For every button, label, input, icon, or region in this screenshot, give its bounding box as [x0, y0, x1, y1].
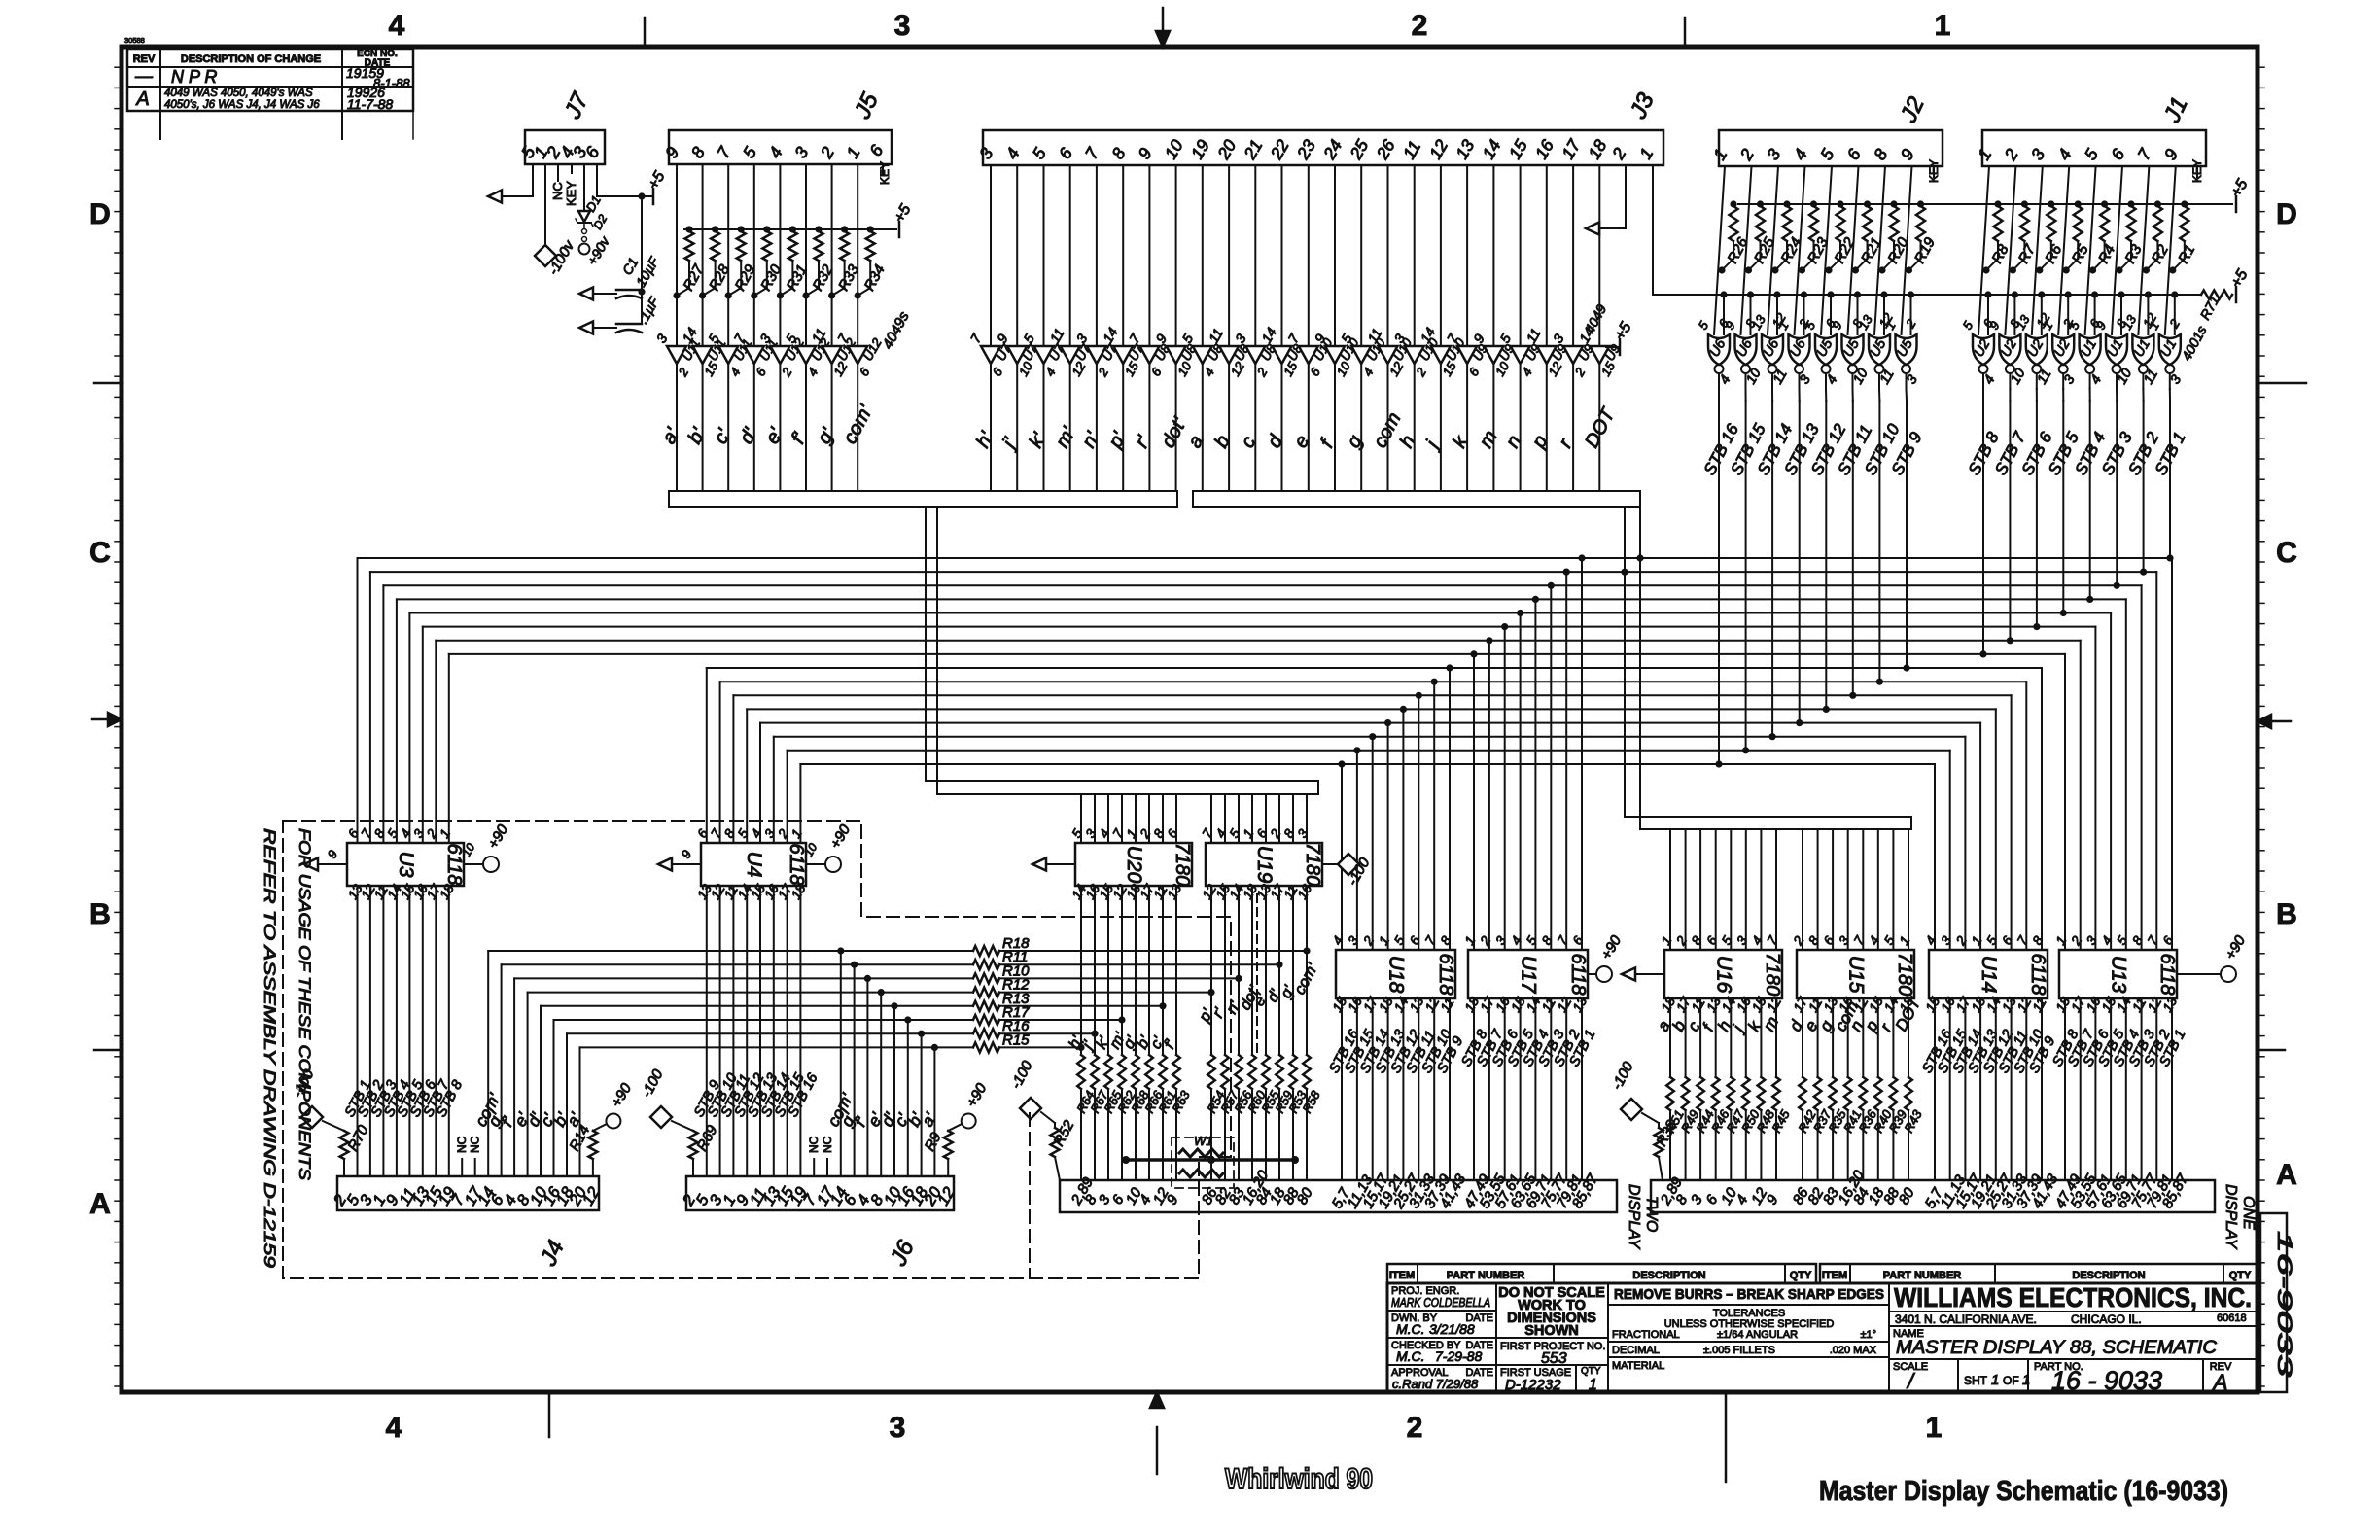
inverter U7: [1113, 346, 1133, 364]
svg-text:m': m': [1052, 423, 1081, 451]
wire segment b': [1148, 886, 1150, 1055]
wire segment bus line R12: [528, 992, 973, 994]
junction to J6 segment pin: [918, 1031, 925, 1037]
wire: [2085, 166, 2096, 334]
junction from strobe gate: [2114, 582, 2120, 589]
svg-text:3: 3: [1295, 826, 1312, 840]
dashed dot-prime line: [1256, 894, 1258, 1055]
inverter U9: [1590, 346, 1609, 364]
wire right bend down: [2041, 668, 2043, 950]
svg-text:4: 4: [1360, 366, 1377, 379]
junction from strobe gate: [1769, 733, 1776, 740]
resistor R54: [1207, 1055, 1215, 1089]
svg-text:2: 2: [2068, 933, 2084, 948]
wire: [1874, 166, 1885, 334]
connector J1: [1982, 130, 2206, 166]
svg-text:+5: +5: [892, 202, 915, 226]
svg-text:+90: +90: [963, 1080, 991, 1110]
svg-text:8: 8: [1107, 144, 1129, 162]
svg-text:R70: R70: [345, 1122, 372, 1154]
svg-text:2: 2: [1608, 144, 1630, 163]
wire segment bus line R16: [567, 1032, 973, 1034]
svg-text:5: 5: [2114, 933, 2130, 947]
wire to J4 segment pin: [540, 1006, 542, 1176]
resistor R13: [973, 1001, 999, 1011]
svg-text:1: 1: [1969, 933, 1985, 947]
svg-text:KEY: KEY: [1927, 159, 1941, 183]
wire segment d: [1802, 998, 1803, 1077]
wire segment k': [1043, 364, 1045, 491]
svg-text:6: 6: [1148, 365, 1165, 378]
wire right bend down: [2141, 585, 2143, 950]
resistor R6: [2047, 200, 2054, 207]
svg-text:12: 12: [1425, 136, 1452, 162]
wire segment f: [1715, 998, 1717, 1077]
svg-text:80: 80: [1896, 1184, 1918, 1207]
svg-text:a': a': [658, 424, 684, 448]
resistor R24: [1783, 200, 1790, 207]
wire segment p': [1210, 886, 1212, 1055]
svg-text:60618: 60618: [2217, 1312, 2247, 1324]
wire right bend down: [1949, 751, 1951, 950]
svg-text:A: A: [89, 1188, 111, 1220]
svg-text:2: 2: [1790, 933, 1806, 948]
inverter U8: [1219, 346, 1239, 364]
wire right bend down: [1964, 737, 1966, 950]
wire: [1848, 166, 1859, 334]
svg-text:+90: +90: [609, 1080, 636, 1110]
svg-text:C: C: [89, 537, 111, 569]
svg-text:NC: NC: [821, 1136, 834, 1153]
NOR gate U2: [1973, 334, 1994, 365]
svg-text:D: D: [2276, 198, 2297, 230]
wire left bend down: [759, 723, 761, 843]
svg-text:6118: 6118: [1567, 953, 1589, 995]
svg-text:+5: +5: [2228, 177, 2252, 200]
wire STB 15: [787, 886, 788, 1176]
resistor R28: [712, 226, 718, 232]
wire: [1210, 794, 1212, 843]
junction to 6118 strobe driver: [1501, 623, 1508, 630]
inverter U10: [1379, 346, 1398, 364]
svg-text:e': e': [761, 424, 787, 448]
svg-text:p': p': [1104, 428, 1131, 452]
wire: [1094, 794, 1096, 843]
svg-text:4: 4: [2053, 145, 2075, 163]
dashed assembly-usage boundary: [283, 821, 1231, 1278]
inverter U9: [1563, 346, 1583, 364]
wire segment n: [1520, 364, 1522, 491]
resistor R35: [1829, 1077, 1837, 1110]
svg-text:g: g: [1343, 432, 1367, 451]
wire: [1148, 794, 1150, 843]
svg-text:4049: 4049: [1582, 301, 1610, 335]
wire segment DOT: [1907, 998, 1909, 1077]
connector J6: [686, 1176, 954, 1210]
svg-text:1: 1: [1974, 146, 1995, 163]
NOR gate U1: [2132, 334, 2153, 365]
wire STB 11: [2011, 998, 2012, 1180]
wire to J4 segment pin: [501, 964, 503, 1176]
svg-text:14: 14: [1479, 136, 1505, 162]
svg-text:FOR USAGE OF THESE COMPONENTS: FOR USAGE OF THESE COMPONENTS: [296, 828, 314, 1181]
wire segment m: [1775, 998, 1777, 1077]
wire STB 4: [396, 886, 398, 1176]
svg-text:9: 9: [679, 848, 695, 861]
wire: [2032, 166, 2043, 334]
svg-text:11-7-88: 11-7-88: [347, 96, 393, 112]
wire STB 14: [773, 886, 775, 1176]
svg-text:20: 20: [1213, 136, 1241, 163]
wire left bend down: [408, 613, 410, 844]
svg-text:D-12232: D-12232: [1505, 1377, 1561, 1393]
svg-text:r': r': [1131, 432, 1155, 452]
svg-text:7: 7: [713, 142, 735, 161]
svg-text:+5: +5: [1612, 320, 1635, 343]
svg-text:2: 2: [1673, 933, 1690, 948]
wire STB 3: [1550, 998, 1552, 1180]
wire segment dot': [1251, 886, 1253, 1055]
resistor R46: [1712, 1077, 1720, 1110]
wire segment h: [1730, 998, 1732, 1077]
svg-text:5: 5: [1960, 318, 1977, 332]
wire STB 7: [1488, 998, 1490, 1180]
wire STB 9: [706, 886, 708, 1176]
svg-text:6: 6: [1466, 365, 1483, 378]
svg-text:11: 11: [1046, 326, 1067, 346]
svg-text:9: 9: [1897, 145, 1918, 163]
svg-text:5: 5: [1391, 933, 1408, 947]
svg-text:±.005 FILLETS: ±.005 FILLETS: [1703, 1345, 1775, 1356]
resistor R4: [2101, 200, 2108, 207]
wire STB 13 horizontal: [760, 722, 1980, 724]
svg-text:3: 3: [790, 143, 812, 161]
junction to 6118 strobe driver: [1486, 637, 1492, 644]
resistor R71: [2201, 291, 2232, 299]
junction to J6 segment pin: [864, 975, 871, 982]
power -100 (U19): [1322, 863, 1338, 865]
svg-text:6118: 6118: [2156, 953, 2178, 995]
wire: [1175, 794, 1177, 843]
wire segment k: [1760, 998, 1762, 1077]
svg-text:dot': dot': [1158, 413, 1192, 451]
diode D1: [583, 173, 585, 210]
svg-text:6118: 6118: [2027, 953, 2048, 995]
svg-text:DISPLAY: DISPLAY: [2222, 1184, 2239, 1250]
resistor R70: [301, 1106, 323, 1128]
svg-text:M.C.: M.C.: [1396, 1348, 1425, 1364]
resistor R9: [947, 1159, 949, 1176]
svg-text:6: 6: [1307, 365, 1323, 378]
wire to J4 segment pin: [579, 1047, 581, 1176]
svg-text:DECIMAL: DECIMAL: [1612, 1345, 1660, 1356]
svg-text:Master Display Schematic (16-9: Master Display Schematic (16-9033): [1819, 1476, 2228, 1507]
svg-text:U14: U14: [1977, 956, 2000, 994]
inverter U7: [981, 346, 1000, 364]
connector J3: [983, 130, 1663, 165]
svg-text:3: 3: [1232, 332, 1249, 346]
svg-text:d': d': [736, 424, 762, 448]
svg-text:1: 1: [1462, 933, 1479, 947]
wire left bend down: [773, 737, 775, 843]
wire STB 9: [1449, 998, 1451, 1180]
svg-text:DESCRIPTION: DESCRIPTION: [1632, 1270, 1705, 1281]
wire left bend down: [396, 599, 398, 843]
wire: [1306, 794, 1308, 843]
wire STB 16: [799, 886, 801, 1176]
wire segment f': [805, 364, 807, 491]
svg-text:3: 3: [1073, 332, 1091, 346]
wire left bend down: [422, 627, 424, 843]
wire right bend down: [2094, 627, 2096, 950]
junction to 6118 strobe driver: [1548, 582, 1555, 589]
ground: [1635, 973, 1664, 975]
resistor R66: [1145, 1055, 1153, 1089]
wire segment d: [1281, 364, 1283, 491]
svg-text:11: 11: [1399, 137, 1424, 162]
svg-text:3: 3: [1550, 332, 1567, 346]
wire STB 2 horizontal: [370, 571, 2156, 573]
wire: [1741, 166, 1752, 334]
wire segment n: [1862, 998, 1864, 1077]
junction: [1235, 975, 1242, 982]
wire STB 12: [1402, 998, 1404, 1180]
svg-text:KEY: KEY: [2190, 159, 2204, 183]
resistor R18: [973, 946, 999, 956]
svg-text:9: 9: [1135, 144, 1156, 162]
NOR gate U6: [1789, 334, 1810, 365]
inverter U9: [1484, 346, 1503, 364]
wire: [1877, 829, 1879, 950]
resistor R25: [1757, 200, 1764, 207]
wire segment bus line R11: [502, 963, 973, 965]
wire STB 6: [422, 886, 424, 1176]
svg-text:5: 5: [1029, 144, 1050, 162]
svg-text:553: 553: [1541, 1350, 1567, 1367]
svg-text:9: 9: [661, 143, 682, 161]
inverter U9: [1511, 346, 1530, 364]
svg-text:4: 4: [805, 366, 822, 379]
svg-text:4: 4: [1042, 366, 1059, 379]
wire segment f': [1175, 886, 1177, 1055]
svg-text:2: 2: [1477, 933, 1493, 948]
svg-text:4: 4: [727, 366, 744, 379]
ground: [672, 863, 701, 865]
svg-text:k: k: [1449, 432, 1473, 451]
wire: [1715, 829, 1717, 950]
svg-text:25: 25: [1346, 136, 1373, 163]
junction: [1303, 947, 1310, 954]
svg-text:10µF: 10µF: [633, 253, 663, 289]
svg-text:D2: D2: [590, 212, 610, 232]
wire: [2112, 166, 2122, 334]
svg-text:1: 1: [1935, 10, 1951, 42]
svg-text:+90: +90: [827, 822, 855, 852]
inverter U9: [1457, 346, 1477, 364]
wire STB 8: [1473, 998, 1475, 1180]
resistor R59: [1276, 1055, 1283, 1089]
svg-text:n: n: [1502, 432, 1526, 451]
svg-text:QTY: QTY: [1790, 1270, 1812, 1281]
inverter U9: [1537, 346, 1557, 364]
junction: [1636, 554, 1643, 561]
svg-text:7180: 7180: [1302, 843, 1323, 887]
inverter U8: [1245, 346, 1265, 364]
svg-text:M.C.: M.C.: [1396, 1321, 1425, 1337]
svg-text:DESCRIPTION: DESCRIPTION: [2072, 1270, 2145, 1281]
wire to J4 segment pin: [527, 993, 529, 1176]
resistor R10: [973, 973, 999, 983]
svg-text:6: 6: [865, 141, 887, 159]
wire left bend down: [448, 654, 450, 843]
wire: [1767, 166, 1778, 334]
resistor R33: [841, 226, 848, 232]
wire STB 3: [2116, 373, 2117, 389]
NOR gate U2: [1999, 334, 2020, 365]
svg-text:9: 9: [1764, 1192, 1782, 1207]
svg-text:+90: +90: [1598, 932, 1626, 962]
wire STB 6: [2036, 373, 2038, 389]
capacitor C2: [641, 292, 643, 324]
wire segment e: [1817, 998, 1819, 1077]
svg-text:FRACTIONAL: FRACTIONAL: [1612, 1329, 1680, 1341]
wire segment f: [1334, 364, 1336, 491]
junction to 6118 strobe driver: [1470, 650, 1477, 657]
junction: [1207, 989, 1214, 996]
inverter U11: [745, 346, 764, 364]
svg-text:R9: R9: [922, 1129, 945, 1153]
wire STB 7: [2080, 998, 2082, 1180]
no-connect stub: [461, 1159, 463, 1176]
svg-text:1: 1: [1991, 1372, 1999, 1388]
svg-text:8: 8: [1438, 933, 1454, 947]
inverter U7: [1061, 346, 1080, 364]
svg-text:OF: OF: [2003, 1374, 2019, 1387]
svg-text:3/21/88: 3/21/88: [1429, 1321, 1475, 1337]
wire segment p': [1122, 364, 1124, 491]
svg-text:+90: +90: [2222, 932, 2250, 962]
wire bus pipe from left bar: [925, 507, 927, 781]
J5 pin wires: [676, 164, 678, 346]
wire segment r': [1148, 364, 1150, 491]
wire STB 10: [1433, 998, 1435, 1180]
wire STB 7: [435, 886, 437, 1176]
J3 pin 2 ground: [1625, 165, 1627, 228]
wire right bend down: [2171, 558, 2173, 950]
resistor R40: [1874, 1077, 1882, 1110]
wire STB 2: [2142, 373, 2144, 389]
wire: [1135, 794, 1137, 843]
svg-text:7: 7: [1555, 933, 1571, 947]
wire segment k: [1466, 364, 1468, 491]
wire J7 pin6 to +5: [596, 164, 598, 196]
NOR gate U1: [2159, 334, 2181, 365]
wire STB 15: [1745, 373, 1747, 389]
wire segment n': [1238, 886, 1240, 1055]
wire segment c: [1254, 364, 1256, 491]
svg-text:KEY: KEY: [878, 161, 892, 185]
wire: [1817, 829, 1819, 950]
wire STB 16: [1341, 998, 1343, 1180]
svg-text:3: 3: [1492, 933, 1509, 947]
svg-text:n': n': [1078, 428, 1104, 452]
wire left bend down: [357, 558, 359, 843]
svg-text:3: 3: [894, 10, 911, 42]
NOR gate U6: [1708, 334, 1730, 365]
wire segment a: [1669, 998, 1671, 1077]
wire STB 10 horizontal: [720, 681, 2027, 682]
wire STB 13: [1979, 998, 1981, 1180]
svg-text:1: 1: [1897, 933, 1913, 947]
svg-text:10: 10: [1161, 136, 1187, 162]
power +90 (U4 pin 10): [806, 863, 825, 865]
ground: [318, 863, 347, 865]
bus bar right (segment signals unprimed): [1193, 491, 1640, 507]
resistor R63: [1172, 1055, 1180, 1089]
wire bus channel A to U20/U19: [926, 780, 1318, 782]
wire STB 6: [1504, 998, 1506, 1180]
wire: [1714, 166, 1725, 334]
wire STB 13: [1387, 998, 1389, 1180]
wire STB 8 horizontal: [449, 653, 2065, 655]
svg-text:U20: U20: [1123, 846, 1145, 884]
junction from strobe gate: [1849, 692, 1856, 699]
wire J7 pin1 to -100v: [544, 173, 546, 245]
wire: [2058, 166, 2069, 334]
svg-text:2: 2: [2000, 145, 2022, 164]
svg-text:4: 4: [1330, 933, 1347, 947]
wire segment j': [1094, 886, 1096, 1055]
svg-text:7: 7: [1285, 331, 1303, 346]
svg-text:6: 6: [857, 365, 873, 378]
svg-text:REFER TO ASSEMBLY DRAWING D-1: REFER TO ASSEMBLY DRAWING D-12159: [261, 828, 279, 1269]
resistor R31: [789, 226, 796, 232]
wire segment a': [676, 364, 678, 491]
resistor R51: [1666, 1077, 1674, 1110]
wire: [1745, 829, 1747, 950]
connector J4: [337, 1176, 599, 1210]
svg-text:14: 14: [1100, 325, 1121, 346]
svg-text:4: 4: [386, 1412, 402, 1444]
wire left bend down: [732, 695, 734, 843]
svg-text:6: 6: [1843, 145, 1865, 163]
wire STB 5: [1520, 998, 1522, 1180]
svg-text:A: A: [2276, 1159, 2297, 1191]
wire STB 16 horizontal: [800, 763, 1935, 765]
IC U19 7180: [1206, 843, 1322, 886]
wire STB 11: [732, 886, 734, 1176]
svg-text:4: 4: [1519, 366, 1535, 379]
wire segment c': [727, 364, 729, 491]
svg-text:8: 8: [1870, 145, 1891, 163]
svg-text:±1/64 ANGULAR: ±1/64 ANGULAR: [1717, 1329, 1798, 1341]
wire STB 8: [2064, 998, 2066, 1180]
svg-text:KEY: KEY: [564, 181, 578, 206]
svg-text:8: 8: [2030, 933, 2047, 947]
wire left bend down: [369, 572, 371, 843]
svg-text:7: 7: [1126, 331, 1143, 346]
svg-text:16: 16: [1531, 136, 1557, 162]
resistor R34: [867, 226, 874, 232]
svg-text:.020 MAX: .020 MAX: [1830, 1345, 1877, 1356]
junction to 6118 strobe driver: [1353, 747, 1360, 753]
svg-text:6: 6: [2107, 145, 2128, 163]
svg-text:1: 1: [1589, 1377, 1597, 1393]
wire segment m': [1121, 886, 1123, 1055]
svg-text:6: 6: [1055, 144, 1076, 162]
junction from strobe gate: [1742, 747, 1749, 753]
power +90v test point: [579, 244, 590, 255]
